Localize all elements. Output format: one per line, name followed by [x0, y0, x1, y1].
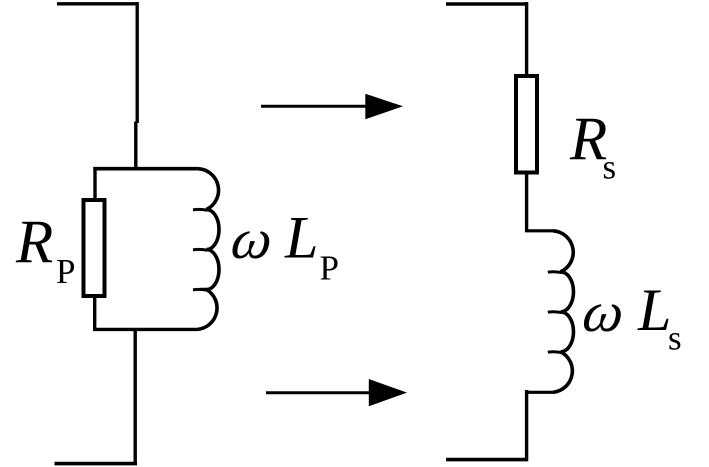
svg-text:s: s	[603, 148, 617, 187]
wire bottom-right horizontal	[446, 458, 528, 462]
inductor LS coil	[553, 231, 574, 392]
arrow bottom head	[369, 379, 407, 406]
inductor LS cusp tail 1	[548, 270, 562, 274]
resistor RP body	[84, 200, 105, 296]
svg-text:s: s	[668, 319, 682, 358]
wire bottom-left horizontal	[55, 462, 138, 466]
inductor LS cusp tail 3	[548, 350, 562, 354]
wire left branch upper	[93, 167, 96, 199]
svg-text:ω: ω	[579, 281, 628, 344]
svg-text:L: L	[637, 277, 671, 343]
svg-text:P: P	[56, 252, 75, 291]
wire left feed vertical lower segment	[134, 122, 137, 171]
wire right inductor top jog	[525, 229, 553, 232]
wire parallel-section top	[93, 167, 197, 171]
wire parallel-section bottom	[93, 328, 197, 331]
wire right vertical above resistor	[525, 2, 528, 76]
label omega-LS omega	[579, 281, 628, 344]
inductor LP cusp tail 2	[193, 248, 208, 252]
inductor LS cusp tail 2	[548, 310, 562, 314]
resistor RS body	[516, 76, 537, 173]
wire bottom-left vertical	[133, 328, 136, 463]
wire left branch lower	[93, 297, 96, 331]
wire left feed vertical upper segment	[136, 2, 139, 123]
arrow top shaft	[261, 105, 369, 108]
svg-text:L: L	[284, 205, 318, 271]
svg-text:P: P	[320, 249, 339, 288]
wire top-right horizontal	[446, 2, 528, 5]
inductor LP coil	[197, 169, 219, 330]
svg-text:ω: ω	[228, 208, 277, 271]
wire top-left horizontal	[57, 2, 138, 5]
label omega-LP omega	[228, 208, 277, 271]
wire right vertical between resistor and inductor	[525, 172, 528, 231]
arrow bottom shaft	[266, 391, 372, 394]
wire right vertical below inductor	[525, 390, 528, 461]
wire right inductor bottom jog	[525, 391, 553, 394]
inductor LP cusp tail 3	[193, 288, 208, 292]
inductor LP cusp tail 1	[193, 208, 208, 212]
arrow top head	[365, 94, 403, 120]
svg-text:R: R	[15, 209, 53, 276]
